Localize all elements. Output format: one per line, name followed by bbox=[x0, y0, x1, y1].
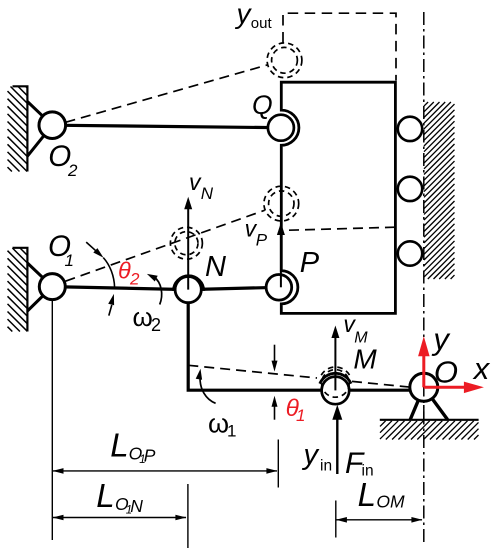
dashed line O2 to phantom Q bbox=[66, 65, 269, 123]
roller 1 bbox=[398, 117, 422, 141]
centreline through O bbox=[423, 360, 425, 420]
svg-text:y: y bbox=[431, 322, 451, 357]
svg-text:M: M bbox=[354, 330, 368, 347]
dash-dot centreline bbox=[423, 12, 425, 543]
phantom M dashed bbox=[321, 367, 349, 397]
wall edge O1 bbox=[13, 248, 28, 332]
pivot legs O bbox=[410, 387, 447, 419]
pivot circle O2 bbox=[39, 112, 66, 139]
x axis red bbox=[424, 382, 484, 394]
phantom Q dashed bbox=[267, 43, 302, 78]
pivot legs O1 bbox=[27, 263, 52, 311]
svg-text:2: 2 bbox=[151, 315, 161, 335]
ground hatching under O bbox=[380, 421, 479, 440]
link 3: O2 to Q bbox=[52, 125, 281, 128]
phantom N dashed bbox=[170, 227, 202, 259]
pin N bbox=[175, 277, 201, 303]
pivot legs O2 bbox=[27, 102, 52, 157]
svg-text:1: 1 bbox=[65, 251, 74, 270]
input link 1: N down and across through M to O bbox=[188, 290, 424, 391]
angle theta1 upper arrow bbox=[272, 345, 278, 372]
svg-text:Q: Q bbox=[252, 90, 273, 120]
svg-text:M: M bbox=[390, 492, 405, 512]
phantom P dashed bbox=[264, 186, 299, 221]
svg-text:L: L bbox=[110, 427, 128, 464]
svg-text:x: x bbox=[472, 351, 491, 386]
svg-text:1: 1 bbox=[296, 406, 305, 425]
svg-text:P: P bbox=[300, 247, 320, 279]
svg-text:P: P bbox=[144, 445, 156, 465]
y axis red bbox=[418, 336, 430, 387]
svg-text:L: L bbox=[358, 476, 376, 513]
roller 2 bbox=[398, 177, 422, 201]
svg-text:L: L bbox=[96, 477, 114, 514]
extension line below N bbox=[187, 484, 189, 548]
pin M bbox=[322, 377, 350, 405]
pin Q bbox=[268, 115, 294, 141]
svg-text:N: N bbox=[201, 184, 214, 203]
angle theta2 arc bbox=[103, 258, 114, 288]
right wall hatching bbox=[424, 102, 455, 279]
svg-text:O: O bbox=[376, 492, 390, 512]
velocity arrow v_M bbox=[331, 326, 339, 391]
svg-text:2: 2 bbox=[129, 269, 140, 288]
svg-text:y: y bbox=[302, 439, 320, 471]
velocity arrow v_P bbox=[277, 223, 285, 288]
phantom block dashed outline bbox=[283, 13, 396, 80]
omega2 rotation arrow bbox=[147, 274, 162, 305]
input force arrow F_in bbox=[332, 405, 342, 474]
extension line below M bbox=[335, 501, 337, 538]
velocity arrow v_N bbox=[184, 197, 192, 290]
dimension L_O1N line bbox=[53, 515, 187, 521]
svg-text:y: y bbox=[235, 0, 253, 29]
theta2 upper leader arrow bbox=[86, 242, 103, 258]
theta2 lower leader arrow bbox=[108, 294, 114, 316]
pivot circle O1 bbox=[39, 274, 65, 300]
pin N cap bbox=[173, 276, 203, 291]
extension line below P bbox=[277, 440, 279, 488]
link 2: O1 to N bbox=[52, 287, 188, 290]
ground line under O bbox=[380, 419, 479, 421]
dimension L_OM line bbox=[336, 517, 423, 523]
wall edge O2 bbox=[13, 86, 28, 171]
angle theta1 lower arrow bbox=[272, 396, 278, 420]
svg-text:ω: ω bbox=[133, 302, 153, 332]
svg-text:N: N bbox=[205, 251, 226, 283]
dashed reference line theta1 bbox=[188, 365, 317, 378]
svg-text:1: 1 bbox=[227, 422, 236, 441]
wall hatching O2 bbox=[8, 87, 28, 172]
wall hatching O1 bbox=[8, 248, 28, 332]
pivot circle O bbox=[410, 373, 438, 401]
svg-text:O: O bbox=[434, 355, 458, 390]
roller 3 bbox=[398, 241, 422, 265]
dashed line O1 to phantom P bbox=[66, 210, 265, 281]
svg-text:2: 2 bbox=[67, 161, 78, 180]
dashed line inside block bbox=[289, 227, 395, 230]
svg-text:ω: ω bbox=[208, 408, 229, 438]
pin P bbox=[266, 275, 292, 301]
slider block outline bbox=[281, 82, 395, 313]
omega1 rotation arrow bbox=[196, 369, 216, 404]
svg-text:out: out bbox=[251, 15, 273, 32]
svg-text:in: in bbox=[320, 458, 332, 475]
svg-text:P: P bbox=[256, 231, 268, 250]
extension line below O1 bbox=[51, 300, 53, 540]
svg-text:N: N bbox=[130, 496, 143, 516]
coupler link N to P bbox=[188, 287, 279, 289]
dimension L_O1P line bbox=[53, 468, 278, 474]
pin M cap bbox=[320, 373, 351, 383]
svg-text:M: M bbox=[353, 343, 377, 374]
